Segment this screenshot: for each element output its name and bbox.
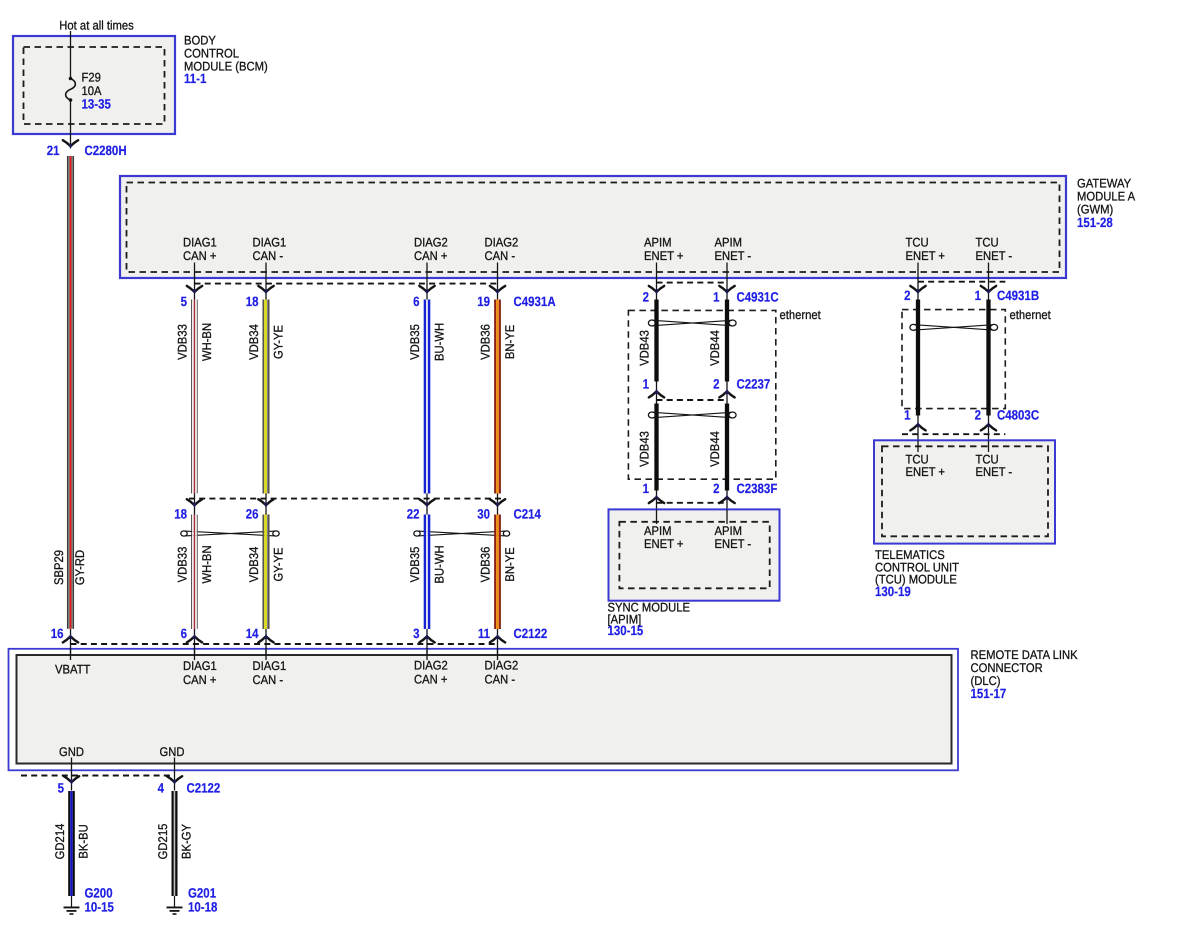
- svg-text:26: 26: [246, 507, 259, 522]
- svg-text:VDB35: VDB35: [408, 547, 422, 583]
- C4803C connector arrows: [910, 425, 917, 430]
- svg-text:GD214: GD214: [53, 824, 67, 860]
- svg-text:CAN -: CAN -: [253, 673, 284, 687]
- wire VDB44 lower segment: [725, 404, 729, 491]
- twisted pair symbol APIM upper: [648, 320, 655, 326]
- GWM pin connector arrow: [187, 286, 194, 291]
- svg-text:6: 6: [413, 294, 420, 309]
- svg-text:10-15: 10-15: [85, 900, 115, 915]
- C214 pin stub wire: [426, 494, 428, 515]
- svg-text:18: 18: [174, 507, 187, 522]
- svg-text:11: 11: [478, 626, 491, 641]
- svg-text:2: 2: [713, 481, 719, 496]
- svg-text:CONNECTOR: CONNECTOR: [971, 661, 1043, 675]
- DLC pin connector arrow: [187, 637, 194, 642]
- svg-text:C4803C: C4803C: [997, 408, 1039, 423]
- ethernet dashed box APIM: [628, 310, 775, 479]
- svg-text:1: 1: [643, 376, 650, 391]
- twisted pair symbol TCU: [910, 324, 917, 330]
- connector C2122 ground dashed line: [21, 775, 175, 777]
- svg-text:C2383F: C2383F: [737, 481, 778, 496]
- DLC pin stub wire: [70, 629, 72, 660]
- svg-text:VDB35: VDB35: [408, 324, 422, 360]
- svg-text:5: 5: [181, 294, 188, 309]
- wire VDB34 GY-YE lower segment: [262, 515, 264, 630]
- svg-text:3: 3: [413, 626, 420, 641]
- svg-text:ENET +: ENET +: [906, 465, 946, 479]
- svg-text:WH-BN: WH-BN: [200, 323, 214, 361]
- svg-text:VDB43: VDB43: [638, 330, 652, 366]
- svg-text:BU-WH: BU-WH: [433, 545, 447, 583]
- C214 pin connector arrow: [258, 499, 265, 504]
- wire TCU ENET+ black: [916, 300, 920, 416]
- svg-text:2: 2: [713, 376, 719, 391]
- GWM pin connector arrow: [649, 286, 656, 291]
- svg-text:APIM: APIM: [644, 235, 672, 249]
- wire VDB43 lower segment: [654, 404, 658, 491]
- module box DLC inner: [17, 655, 952, 764]
- svg-text:1: 1: [713, 290, 720, 305]
- svg-text:30: 30: [477, 507, 490, 522]
- svg-text:VDB33: VDB33: [176, 547, 190, 583]
- svg-text:F29: F29: [82, 71, 101, 85]
- svg-text:VBATT: VBATT: [55, 662, 91, 676]
- svg-text:BN-YE: BN-YE: [503, 547, 517, 581]
- svg-text:CAN -: CAN -: [253, 249, 284, 263]
- svg-text:TCU: TCU: [976, 235, 999, 249]
- svg-text:APIM: APIM: [715, 235, 743, 249]
- connector C214 dashed line: [189, 498, 503, 500]
- wire VDB33 WH-BN upper segment: [191, 300, 192, 494]
- svg-text:CAN +: CAN +: [183, 249, 216, 263]
- GWM pin stub wire: [917, 263, 919, 300]
- svg-text:C2280H: C2280H: [85, 143, 127, 158]
- DLC pin connector arrow: [258, 637, 265, 642]
- connector C2237 dashed line: [657, 399, 728, 401]
- svg-text:VDB44: VDB44: [708, 330, 722, 366]
- C214 pin stub wire: [265, 494, 267, 515]
- svg-text:MODULE A: MODULE A: [1077, 190, 1136, 204]
- GWM pin connector arrow: [981, 286, 988, 291]
- ground symbol G201: [174, 896, 176, 907]
- svg-text:BN-YE: BN-YE: [503, 325, 517, 359]
- svg-text:19: 19: [477, 294, 490, 309]
- GND pin connector arrow left: [64, 776, 71, 781]
- connector C2122 dashed line: [71, 643, 498, 645]
- DLC pin stub wire inside box: [426, 648, 428, 660]
- twisted pair symbol DIAG1: [181, 531, 187, 536]
- fuse F29 10A: [69, 77, 73, 81]
- wire VDB33 WH-BN lower segment: [191, 515, 192, 630]
- GWM pin stub wire: [426, 263, 428, 300]
- svg-text:ENET -: ENET -: [976, 249, 1013, 263]
- svg-text:18: 18: [246, 294, 259, 309]
- svg-text:GD215: GD215: [156, 824, 170, 860]
- svg-text:REMOTE DATA LINK: REMOTE DATA LINK: [971, 648, 1079, 662]
- C2237 connector arrows: [649, 392, 656, 397]
- DLC pin stub wire inside box: [70, 648, 72, 660]
- svg-text:ENET -: ENET -: [715, 249, 752, 263]
- svg-text:VDB36: VDB36: [479, 324, 493, 360]
- GWM pin connector arrow: [490, 286, 497, 291]
- svg-text:G201: G201: [188, 886, 216, 901]
- DLC pin stub wire: [497, 629, 499, 660]
- connector C4803C dashed line: [902, 433, 1005, 435]
- connector C2383F dashed line: [657, 502, 728, 504]
- SYNC pin stub wires inside box: [656, 509, 658, 524]
- svg-text:VDB44: VDB44: [708, 431, 722, 467]
- C214 pin connector arrow: [187, 499, 194, 504]
- svg-text:GND: GND: [59, 745, 84, 759]
- C2237 pin stub wires: [656, 382, 658, 404]
- svg-text:VDB36: VDB36: [479, 547, 493, 583]
- connector C4931A dashed line: [195, 283, 498, 285]
- svg-text:C4931C: C4931C: [737, 290, 779, 305]
- GWM pin stub wire: [988, 263, 990, 300]
- svg-text:DIAG1: DIAG1: [183, 659, 217, 673]
- svg-text:SBP29: SBP29: [52, 550, 66, 585]
- DLC pin connector arrow: [419, 637, 426, 642]
- GWM pin stub wire: [497, 263, 499, 300]
- svg-text:DIAG2: DIAG2: [414, 235, 448, 249]
- svg-text:VDB34: VDB34: [247, 324, 261, 360]
- svg-text:VDB34: VDB34: [247, 547, 261, 583]
- ethernet dashed box TCU: [902, 310, 1005, 409]
- svg-text:DIAG1: DIAG1: [253, 659, 287, 673]
- wire VDB36 BN-YE lower segment: [494, 515, 496, 630]
- connector C4931C dashed line: [657, 282, 728, 284]
- svg-text:13-35: 13-35: [82, 96, 112, 111]
- C214 pin stub wire: [194, 494, 196, 515]
- svg-text:ENET +: ENET +: [644, 537, 684, 551]
- svg-text:130-19: 130-19: [875, 584, 911, 599]
- svg-text:4: 4: [158, 781, 165, 796]
- svg-text:C2122: C2122: [514, 626, 548, 641]
- svg-text:C4931B: C4931B: [997, 288, 1039, 303]
- svg-text:CAN -: CAN -: [485, 672, 516, 686]
- svg-text:151-17: 151-17: [971, 686, 1007, 701]
- GWM pin connector arrow: [258, 286, 265, 291]
- svg-text:TCU: TCU: [906, 235, 929, 249]
- wire SBP29 GY-RD from BCM to DLC pin 16: [67, 156, 68, 629]
- svg-text:130-15: 130-15: [608, 623, 644, 638]
- svg-text:CAN -: CAN -: [485, 249, 516, 263]
- svg-text:21: 21: [47, 143, 60, 158]
- svg-text:BU-WH: BU-WH: [433, 323, 447, 361]
- DLC pin stub wire: [426, 629, 428, 660]
- C2383F connector arrows: [649, 498, 656, 503]
- GND pin stub wire: [174, 758, 176, 791]
- svg-text:16: 16: [51, 626, 64, 641]
- svg-text:ENET +: ENET +: [906, 249, 946, 263]
- svg-text:ENET -: ENET -: [976, 465, 1013, 479]
- svg-text:ethernet: ethernet: [780, 308, 822, 322]
- svg-text:DIAG1: DIAG1: [253, 235, 287, 249]
- SYNC inner dashed outline: [619, 522, 769, 589]
- wire VDB44 upper segment: [725, 300, 729, 382]
- svg-text:GND: GND: [160, 745, 185, 759]
- TCU pin stub wires inside box: [917, 440, 919, 452]
- connector C4931B dashed line: [918, 281, 1005, 283]
- svg-text:Hot at all times: Hot at all times: [59, 19, 133, 33]
- svg-text:DIAG2: DIAG2: [414, 659, 448, 673]
- wire VDB35 BU-WH lower segment: [424, 515, 427, 630]
- svg-text:C214: C214: [514, 507, 542, 522]
- svg-text:5: 5: [58, 781, 65, 796]
- DLC pin stub wire inside box: [194, 648, 196, 660]
- svg-text:GY-YE: GY-YE: [272, 325, 286, 359]
- wire from fuse to BCM pin 21: [70, 100, 72, 146]
- GWM pin connector arrow: [419, 286, 426, 291]
- svg-text:WH-BN: WH-BN: [200, 545, 214, 583]
- svg-text:10-18: 10-18: [188, 900, 218, 915]
- wire from Hot at all times into BCM: [70, 31, 72, 79]
- svg-text:DIAG2: DIAG2: [485, 659, 519, 673]
- svg-text:VDB43: VDB43: [638, 431, 652, 467]
- svg-text:14: 14: [246, 626, 259, 641]
- svg-text:ethernet: ethernet: [1010, 308, 1052, 322]
- svg-text:BK-GY: BK-GY: [180, 823, 194, 859]
- wire TCU ENET- black: [986, 300, 990, 416]
- module box DLC outer: [9, 649, 959, 771]
- DLC pin stub wire: [194, 629, 196, 660]
- C2383F pin stub wires: [656, 491, 658, 525]
- GND pin connector arrow right: [167, 776, 174, 781]
- C214 pin stub wire: [497, 494, 499, 515]
- svg-text:2: 2: [643, 290, 649, 305]
- connector arrow C2280H pin 21: [63, 140, 70, 145]
- module box BCM: [13, 36, 175, 134]
- svg-text:VDB33: VDB33: [176, 324, 190, 360]
- wire GD214 BK-BU: [68, 791, 70, 896]
- BCM inner dashed outline: [24, 47, 165, 124]
- C214 pin connector arrow: [490, 499, 497, 504]
- svg-text:2: 2: [904, 288, 910, 303]
- GWM pin connector arrow: [719, 286, 726, 291]
- GWM pin stub wire: [194, 263, 196, 300]
- twisted pair symbol DIAG2: [414, 531, 420, 536]
- svg-text:C2237: C2237: [737, 376, 771, 391]
- wire VDB35 BU-WH upper segment: [424, 300, 427, 494]
- C214 pin connector arrow: [419, 499, 426, 504]
- svg-text:DIAG1: DIAG1: [183, 235, 217, 249]
- wire VDB43 upper segment: [654, 300, 658, 382]
- DLC pin connector arrow: [490, 637, 497, 642]
- TCU inner dashed outline: [882, 446, 1048, 536]
- svg-text:C2122: C2122: [187, 781, 221, 796]
- svg-text:GY-RD: GY-RD: [73, 550, 87, 585]
- C4803C pin stub wires: [917, 416, 919, 451]
- svg-text:1: 1: [975, 288, 982, 303]
- ground symbol G200: [71, 896, 73, 907]
- svg-text:6: 6: [181, 626, 188, 641]
- DLC pin connector arrow: [63, 637, 70, 642]
- wire VDB36 BN-YE upper segment: [494, 300, 496, 494]
- svg-text:2: 2: [975, 408, 981, 423]
- wire GD215 BK-GY: [172, 791, 174, 896]
- svg-text:C4931A: C4931A: [514, 294, 556, 309]
- module box TCU: [874, 440, 1055, 543]
- svg-text:151-28: 151-28: [1077, 215, 1113, 230]
- svg-text:1: 1: [904, 408, 911, 423]
- GWM inner dashed outline: [127, 183, 1060, 273]
- svg-text:CAN +: CAN +: [183, 673, 216, 687]
- svg-text:GY-YE: GY-YE: [272, 548, 286, 582]
- svg-text:CAN +: CAN +: [414, 672, 447, 686]
- svg-text:ENET -: ENET -: [715, 537, 752, 551]
- svg-text:DIAG2: DIAG2: [485, 235, 519, 249]
- DLC pin stub wire inside box: [497, 648, 499, 660]
- module box Gateway Module A GWM: [120, 176, 1066, 278]
- GWM pin stub wire: [265, 263, 267, 300]
- GWM pin stub wire: [656, 263, 658, 300]
- GND pin stub wire: [71, 758, 73, 791]
- svg-text:22: 22: [407, 507, 420, 522]
- DLC pin stub wire: [265, 629, 267, 660]
- module box SYNC APIM: [609, 509, 780, 600]
- svg-text:11-1: 11-1: [184, 71, 207, 86]
- DLC pin stub wire inside box: [265, 648, 267, 660]
- twisted pair symbol APIM lower: [648, 412, 655, 418]
- wire VDB34 GY-YE upper segment: [262, 300, 264, 494]
- svg-text:1: 1: [643, 481, 650, 496]
- GWM pin stub wire: [726, 263, 728, 300]
- svg-text:ENET +: ENET +: [644, 249, 684, 263]
- svg-text:G200: G200: [85, 886, 113, 901]
- GWM pin connector arrow: [910, 286, 917, 291]
- svg-text:BK-BU: BK-BU: [77, 824, 91, 858]
- svg-text:CAN +: CAN +: [414, 249, 447, 263]
